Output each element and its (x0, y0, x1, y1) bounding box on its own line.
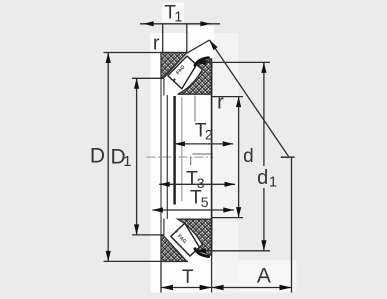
dim T3 arrow left (159, 182, 170, 187)
svg-text:T: T (182, 267, 194, 288)
dim d1 arrow down (261, 240, 266, 251)
svg-text:1: 1 (269, 175, 277, 191)
dim T5 arrow right (223, 207, 234, 212)
dim T/A ext middle (211, 252, 213, 293)
svg-text:r: r (153, 33, 160, 55)
pressure centre tick (281, 156, 295, 158)
svg-text:5: 5 (201, 194, 209, 210)
housing washer bottom sphered-corner arc (195, 249, 209, 257)
dim T3 line (159, 183, 235, 185)
dim d1 ext top (203, 61, 270, 63)
svg-text:1: 1 (123, 153, 131, 170)
dim d ext bottom (212, 217, 243, 219)
dim T2 arrow right (223, 141, 234, 146)
roller bottom (171, 223, 200, 256)
cage edge top (194, 96, 196, 122)
dim A ext right (291, 157, 293, 292)
dim T1 arrow left (143, 21, 154, 26)
housing washer top (178, 59, 212, 94)
dim T1 label box (162, 3, 184, 23)
dim A arrow left (212, 285, 224, 291)
load line stub (187, 40, 210, 53)
dim T2 arrow left (174, 141, 185, 146)
dim d1 arrow up (261, 62, 266, 73)
dim D1 arrow down (134, 224, 139, 235)
bore line 1 (washer inner edge left) (160, 78, 162, 235)
shaft washer top wedge (161, 53, 187, 79)
dim D ext top (104, 52, 189, 54)
housing washer back face (211, 62, 213, 253)
dim T ext left (160, 262, 162, 293)
dim D arrow up (106, 53, 111, 64)
ledge line center (193, 153, 214, 155)
roller bottom mark dot (175, 230, 178, 233)
dim T2 line (174, 143, 233, 145)
dim D1 arrow up (134, 78, 139, 89)
dim d1 line (263, 62, 265, 250)
svg-text:D: D (90, 145, 105, 168)
svg-text:d: d (257, 167, 268, 189)
dim D1 ext bottom (132, 234, 164, 236)
dim d1 top surface arrow (195, 60, 206, 65)
dim T3 label box (185, 170, 206, 184)
white canvas bottom band (239, 260, 297, 293)
dim D arrow down (106, 251, 111, 262)
dim d arrow up (236, 97, 241, 108)
svg-text:2: 2 (205, 127, 213, 143)
dim T2 label box (194, 122, 211, 141)
dim d ext top (212, 96, 243, 98)
dim T5 label box (189, 189, 210, 204)
dim T1 ext right (186, 24, 188, 53)
dim T1 arrow right (200, 21, 211, 26)
roller top mark dot (173, 78, 176, 81)
shaft washer bottom wedge (161, 235, 187, 261)
load line arrowhead (210, 40, 218, 50)
bore line 4 (faint) (181, 97, 183, 201)
dim T5 line (152, 209, 234, 211)
svg-text:1: 1 (174, 9, 182, 25)
dim D1 ext top (132, 77, 164, 79)
centerline (axis) (147, 156, 214, 158)
dim T3 arrow right (225, 182, 236, 187)
cage stub center (190, 157, 192, 166)
dim T1 ext left (162, 24, 164, 53)
load line (210, 40, 289, 156)
bore line 2a (163, 79, 165, 236)
dim D ext bottom (104, 260, 189, 262)
dim T5 arrow left (152, 207, 163, 212)
dim T A line (161, 287, 292, 289)
bore line 3 (thick cage line) (173, 96, 175, 205)
housing washer top sphered-corner arc (195, 58, 209, 66)
dim d arrow down (236, 207, 241, 218)
dim D line (107, 53, 109, 262)
dim d1 bottom surface arrow (195, 248, 206, 253)
dim T arrow left (161, 285, 173, 291)
white drawing canvas (151, 33, 215, 293)
dim A arrow right (280, 285, 292, 291)
roller top (168, 56, 197, 89)
dim d line (238, 97, 240, 218)
svg-text:d: d (243, 146, 254, 167)
svg-text:r: r (217, 91, 224, 113)
dim T arrow right (200, 285, 212, 291)
dim d1 ext bottom (203, 250, 270, 252)
white canvas top-right patch (187, 26, 214, 33)
dim D1 line (136, 78, 138, 235)
white drawing canvas fade (214, 33, 239, 293)
svg-text:A: A (257, 264, 271, 287)
bore line 2 (166, 95, 168, 219)
dim T1 line (140, 23, 220, 25)
housing washer bottom (178, 219, 212, 255)
